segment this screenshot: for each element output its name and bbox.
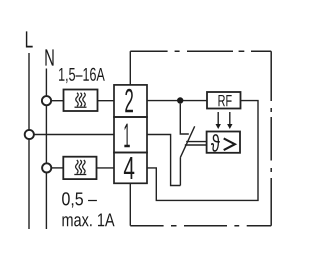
heater symbol in F2 bbox=[74, 160, 86, 175]
signal arrow 1 (RF to thermostat) bbox=[216, 112, 233, 129]
switch pivot wire bbox=[179, 158, 181, 186]
enclosure dash-dot border right bbox=[270, 51, 272, 226]
terminal block: terminal 2 bbox=[114, 85, 147, 117]
thermostat box B1 (theta >) bbox=[207, 132, 240, 153]
terminal circle on N (lower) bbox=[42, 163, 51, 172]
wire RF output loop to terminal 4 bbox=[147, 101, 258, 201]
label fuse rating 1,5-16A bbox=[59, 68, 105, 83]
wire N supply line bbox=[45, 69, 47, 230]
terminal block: terminal 1 bbox=[114, 117, 147, 153]
junction node dot bbox=[177, 97, 183, 103]
net N label bbox=[45, 49, 53, 65]
terminal circle on L bbox=[25, 130, 34, 139]
wire terminal 1 U-loop to switch bbox=[147, 135, 180, 186]
wire L supply line bbox=[28, 53, 30, 229]
switch fixed contact from junction bbox=[180, 104, 189, 134]
label max. 1A bbox=[62, 213, 114, 226]
switch blade (open contact) bbox=[180, 126, 194, 157]
terminal block: terminal 4 bbox=[114, 153, 147, 184]
wire N circle to fuse F2 bbox=[51, 167, 63, 169]
wire F2 to terminal 4 bbox=[97, 167, 114, 169]
enclosure dash-dot border bottom bbox=[130, 225, 271, 227]
mechanical link double line bbox=[185, 142, 207, 145]
wire F1 to terminal 2 bbox=[98, 100, 114, 102]
label fuse rating 0,5 - bbox=[62, 192, 97, 207]
fuse F1 box (1,5-16A) bbox=[64, 90, 98, 112]
greater-than glyph bbox=[224, 138, 235, 150]
wire N circle to fuse F1 bbox=[51, 100, 63, 102]
signal arrow 2 (RF to thermostat) bbox=[229, 112, 231, 125]
wire terminal 2 to RF bbox=[147, 100, 207, 102]
RF receiver box U1 bbox=[207, 92, 241, 109]
wire enclosure stub above terminal 2 bbox=[129, 51, 131, 85]
heater symbol in F1 bbox=[75, 93, 87, 107]
theta glyph bbox=[211, 134, 220, 152]
terminal circle on N (upper) bbox=[42, 96, 51, 105]
wire L circle to terminal 1 bbox=[34, 134, 114, 136]
enclosure dash-dot border top bbox=[130, 51, 271, 226]
wire enclosure stub below terminal 4 bbox=[129, 183, 131, 225]
net L label bbox=[26, 31, 33, 47]
fuse F2 box (0,5-1A) bbox=[63, 157, 96, 179]
